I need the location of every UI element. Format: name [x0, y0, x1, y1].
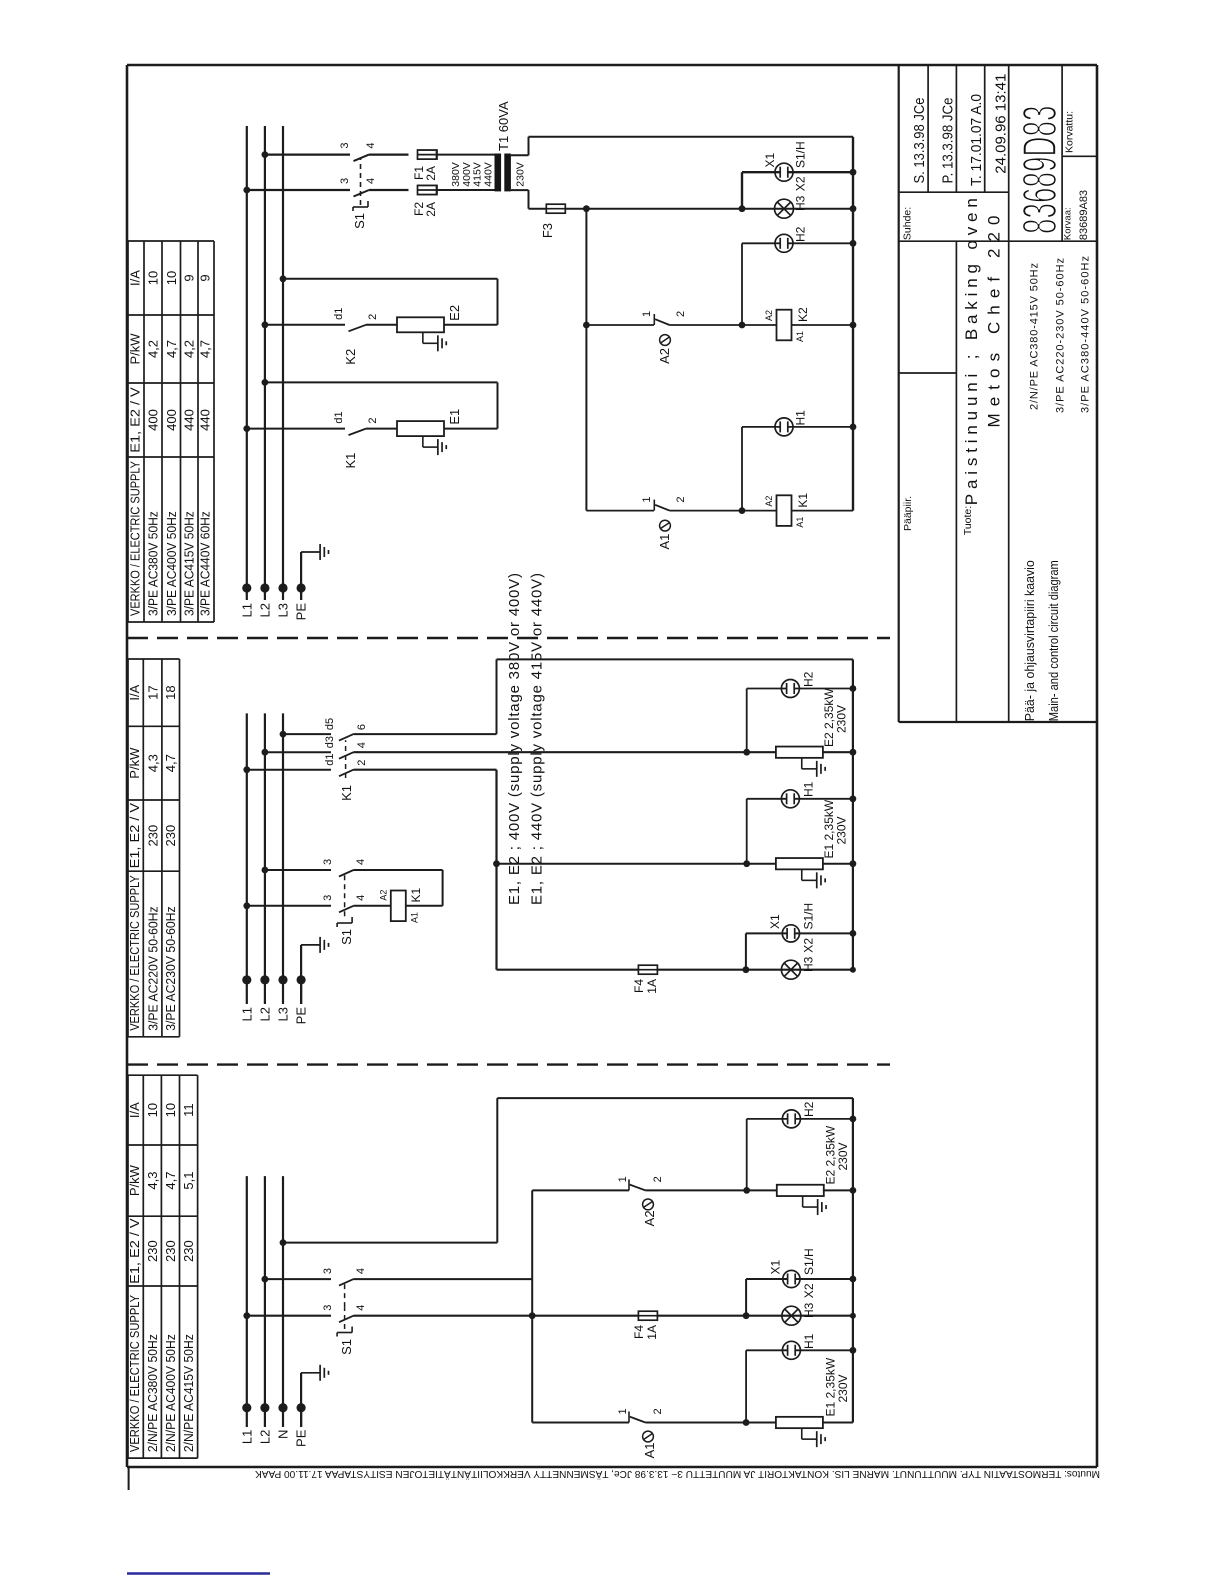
svg-text:230V: 230V — [835, 705, 849, 733]
svg-text:X2: X2 — [802, 1283, 816, 1298]
svg-text:400: 400 — [164, 409, 179, 431]
svg-text:H2: H2 — [794, 226, 808, 242]
svg-text:400: 400 — [146, 409, 161, 431]
svg-text:A1: A1 — [410, 912, 420, 923]
svg-text:S1: S1 — [352, 213, 367, 229]
svg-text:2: 2 — [367, 417, 379, 423]
svg-text:9: 9 — [198, 274, 213, 281]
svg-text:N: N — [276, 1430, 291, 1439]
svg-text:VERKKO / ELECTRIC SUPPLY: VERKKO / ELECTRIC SUPPLY — [128, 461, 143, 616]
svg-text:Paistinuuni ; Baking oven: Paistinuuni ; Baking oven — [962, 198, 981, 505]
svg-text:1A: 1A — [645, 979, 659, 994]
svg-text:H3: H3 — [794, 195, 808, 211]
svg-text:E1, E2 ; 400V (supply voltage: E1, E2 ; 400V (supply voltage 380V or 40… — [506, 573, 523, 905]
svg-text:T. 17.01.07 A.0: T. 17.01.07 A.0 — [969, 94, 985, 186]
svg-text:H1: H1 — [802, 1333, 816, 1349]
svg-text:4: 4 — [355, 1305, 367, 1311]
svg-text:F3: F3 — [540, 223, 555, 238]
svg-text:P/kW: P/kW — [128, 333, 143, 365]
svg-text:d1: d1 — [333, 308, 345, 320]
svg-text:440: 440 — [198, 409, 213, 431]
svg-text:3/PE AC230V 50-60Hz: 3/PE AC230V 50-60Hz — [163, 906, 178, 1030]
svg-text:2: 2 — [652, 1408, 664, 1414]
svg-text:L1: L1 — [239, 1007, 254, 1021]
svg-text:S1/H: S1/H — [794, 141, 808, 168]
svg-text:Main- and control circuit: Main- and control circuit diagram — [1046, 560, 1061, 721]
svg-text:E1, E2 / V: E1, E2 / V — [127, 1218, 142, 1284]
svg-text:83689A83: 83689A83 — [1078, 190, 1090, 240]
svg-text:X1: X1 — [763, 152, 777, 167]
svg-text:17: 17 — [145, 685, 160, 699]
svg-text:L1: L1 — [239, 1430, 254, 1444]
svg-text:24.09.96 13:41: 24.09.96 13:41 — [994, 74, 1010, 174]
svg-text:H2: H2 — [802, 1101, 816, 1117]
svg-text:H1: H1 — [802, 781, 816, 797]
svg-text:P/kW: P/kW — [127, 747, 142, 779]
svg-text:3: 3 — [339, 178, 351, 184]
svg-text:L2: L2 — [257, 603, 272, 617]
svg-text:d5: d5 — [324, 718, 336, 730]
svg-text:Metos Chef 220: Metos Chef 220 — [985, 216, 1004, 428]
svg-text:5,1: 5,1 — [181, 1172, 196, 1190]
svg-text:A2: A2 — [379, 890, 389, 901]
svg-text:2/N/PE AC380V 50Hz: 2/N/PE AC380V 50Hz — [145, 1334, 160, 1452]
svg-text:L3: L3 — [276, 603, 291, 617]
svg-text:S1: S1 — [339, 1339, 354, 1355]
svg-text:230: 230 — [163, 825, 178, 847]
svg-text:4: 4 — [355, 859, 367, 865]
svg-text:3: 3 — [322, 895, 334, 901]
svg-text:E1, E2 / V: E1, E2 / V — [127, 802, 142, 868]
svg-text:10: 10 — [163, 1103, 178, 1117]
svg-text:A2: A2 — [764, 496, 774, 507]
svg-text:A2: A2 — [657, 348, 672, 364]
svg-text:4: 4 — [356, 742, 368, 748]
svg-text:4,3: 4,3 — [145, 1172, 160, 1190]
svg-text:P/kW: P/kW — [127, 1164, 142, 1196]
svg-text:S1/H: S1/H — [802, 1248, 816, 1275]
svg-text:A2: A2 — [642, 1210, 657, 1226]
svg-text:K1: K1 — [409, 887, 423, 902]
svg-text:4,7: 4,7 — [198, 340, 213, 358]
svg-text:6: 6 — [356, 724, 368, 730]
svg-text:VERKKO / ELECTRIC SUPPLY: VERKKO / ELECTRIC SUPPLY — [127, 875, 142, 1031]
svg-text:I/A: I/A — [128, 270, 143, 286]
svg-text:3: 3 — [339, 142, 351, 148]
svg-text:X2: X2 — [794, 176, 808, 191]
svg-text:I/A: I/A — [127, 1102, 142, 1118]
svg-text:K1: K1 — [796, 493, 810, 508]
svg-text:F4: F4 — [632, 1325, 646, 1339]
svg-text:S1: S1 — [339, 929, 354, 945]
svg-text:3: 3 — [322, 1305, 334, 1311]
svg-text:Korvattu:: Korvattu: — [1064, 111, 1076, 153]
svg-text:d1: d1 — [324, 753, 336, 765]
svg-text:4: 4 — [365, 142, 377, 148]
svg-text:PE: PE — [294, 603, 309, 621]
svg-text:T1 60VA: T1 60VA — [496, 101, 511, 151]
svg-text:2: 2 — [652, 1176, 664, 1182]
svg-text:3: 3 — [322, 859, 334, 865]
svg-text:9: 9 — [182, 274, 197, 281]
svg-text:d1: d1 — [333, 411, 345, 423]
svg-text:H3: H3 — [802, 956, 816, 972]
svg-text:4,3: 4,3 — [145, 754, 160, 772]
svg-text:E1, E2 ; 440V (supply voltage: E1, E2 ; 440V (supply voltage 415V or 44… — [529, 573, 546, 905]
svg-text:A1: A1 — [657, 534, 672, 550]
svg-text:A1: A1 — [795, 517, 805, 528]
svg-text:A1: A1 — [795, 331, 805, 342]
svg-text:10: 10 — [164, 271, 179, 285]
svg-text:2: 2 — [675, 496, 687, 502]
svg-text:L1: L1 — [239, 603, 254, 617]
svg-text:1: 1 — [641, 311, 653, 317]
svg-text:4,2: 4,2 — [146, 340, 161, 358]
svg-text:4,2: 4,2 — [182, 340, 197, 358]
svg-text:230V: 230V — [515, 162, 527, 187]
svg-text:X1: X1 — [768, 914, 782, 929]
svg-text:1: 1 — [617, 1408, 629, 1414]
svg-text:E1: E1 — [447, 409, 462, 425]
svg-text:L2: L2 — [257, 1007, 272, 1021]
svg-text:10: 10 — [145, 1103, 160, 1117]
svg-text:Muutos: TERMOSTAATIN TYP. MUU: Muutos: TERMOSTAATIN TYP. MUUTTUNUT. MAR… — [255, 1468, 1100, 1480]
svg-text:1: 1 — [641, 496, 653, 502]
svg-text:E1, E2 / V: E1, E2 / V — [128, 387, 143, 453]
svg-text:K1: K1 — [343, 453, 358, 469]
svg-text:3/PE AC380-440V 50-60Hz: 3/PE AC380-440V 50-60Hz — [1080, 256, 1092, 413]
svg-text:2: 2 — [356, 760, 368, 766]
svg-text:230V: 230V — [836, 1142, 850, 1170]
svg-text:K2: K2 — [796, 307, 810, 322]
svg-text:3: 3 — [322, 1268, 334, 1274]
svg-text:X2: X2 — [802, 938, 816, 953]
svg-text:10: 10 — [146, 271, 161, 285]
svg-text:F4: F4 — [632, 979, 646, 993]
svg-text:1: 1 — [617, 1176, 629, 1182]
svg-text:d3: d3 — [324, 736, 336, 748]
svg-text:2A: 2A — [424, 202, 438, 217]
svg-text:H1: H1 — [794, 410, 808, 426]
svg-text:230: 230 — [163, 1240, 178, 1262]
svg-text:230: 230 — [145, 1240, 160, 1262]
svg-text:X1: X1 — [769, 1259, 783, 1274]
svg-text:PE: PE — [294, 1007, 309, 1025]
svg-text:2/N/PE AC415V 50Hz: 2/N/PE AC415V 50Hz — [181, 1334, 196, 1452]
svg-text:H2: H2 — [802, 671, 816, 687]
svg-text:Tuote:: Tuote: — [962, 506, 974, 535]
svg-text:230: 230 — [145, 825, 160, 847]
svg-text:4: 4 — [355, 895, 367, 901]
svg-text:2: 2 — [367, 314, 379, 320]
svg-text:2/N/PE AC400V 50Hz: 2/N/PE AC400V 50Hz — [163, 1334, 178, 1452]
svg-text:A1: A1 — [642, 1443, 657, 1459]
svg-text:1A: 1A — [645, 1325, 659, 1340]
svg-text:11: 11 — [181, 1103, 196, 1117]
svg-text:18: 18 — [163, 685, 178, 699]
svg-text:P. 13.3.98 JCe: P. 13.3.98 JCe — [941, 98, 957, 184]
svg-text:3/PE AC415V 50Hz: 3/PE AC415V 50Hz — [182, 511, 197, 616]
svg-text:Korvaa:: Korvaa: — [1063, 207, 1074, 240]
svg-text:4: 4 — [355, 1268, 367, 1274]
svg-text:4,7: 4,7 — [164, 340, 179, 358]
svg-text:H3: H3 — [802, 1302, 816, 1318]
svg-text:2/N/PE AC380-415V 50Hz: 2/N/PE AC380-415V 50Hz — [1029, 263, 1041, 410]
svg-text:PE: PE — [294, 1429, 309, 1447]
svg-text:4,7: 4,7 — [163, 1172, 178, 1190]
svg-text:L2: L2 — [257, 1430, 272, 1444]
svg-text:Pääpiir.: Pääpiir. — [902, 496, 914, 531]
svg-text:3/PE AC380V 50Hz: 3/PE AC380V 50Hz — [146, 511, 161, 616]
svg-text:3/PE AC440V 60Hz: 3/PE AC440V 60Hz — [198, 511, 213, 616]
svg-text:K1: K1 — [339, 785, 354, 801]
svg-text:E2: E2 — [447, 305, 462, 321]
svg-text:I/A: I/A — [127, 684, 142, 700]
svg-text:4,7: 4,7 — [163, 754, 178, 772]
svg-text:230V: 230V — [836, 1374, 850, 1402]
svg-text:A2: A2 — [764, 310, 774, 321]
svg-text:2: 2 — [675, 311, 687, 317]
svg-text:3/PE AC220V 50-60Hz: 3/PE AC220V 50-60Hz — [145, 906, 160, 1030]
svg-text:L3: L3 — [276, 1007, 291, 1021]
svg-text:4: 4 — [365, 178, 377, 184]
svg-text:440V: 440V — [482, 162, 494, 187]
svg-text:2A: 2A — [424, 166, 438, 181]
svg-text:3/PE AC220-230V 50-60Hz: 3/PE AC220-230V 50-60Hz — [1055, 258, 1067, 413]
svg-text:Pää- ja ohjausvirtapiiri ka: Pää- ja ohjausvirtapiiri kaavio — [1022, 560, 1037, 721]
svg-text:Suhde:: Suhde: — [902, 207, 914, 240]
svg-text:83689D83: 83689D83 — [1014, 106, 1067, 235]
svg-text:K2: K2 — [343, 349, 358, 365]
svg-text:S1/H: S1/H — [802, 903, 816, 930]
svg-text:3/PE AC400V 50Hz: 3/PE AC400V 50Hz — [164, 511, 179, 616]
svg-text:440: 440 — [182, 409, 197, 431]
svg-text:S. 13.3.98 JCe: S. 13.3.98 JCe — [912, 98, 928, 184]
svg-text:230: 230 — [181, 1240, 196, 1262]
svg-text:VERKKO / ELECTRIC SUPPLY: VERKKO / ELECTRIC SUPPLY — [127, 1295, 142, 1452]
svg-text:230V: 230V — [835, 816, 849, 844]
